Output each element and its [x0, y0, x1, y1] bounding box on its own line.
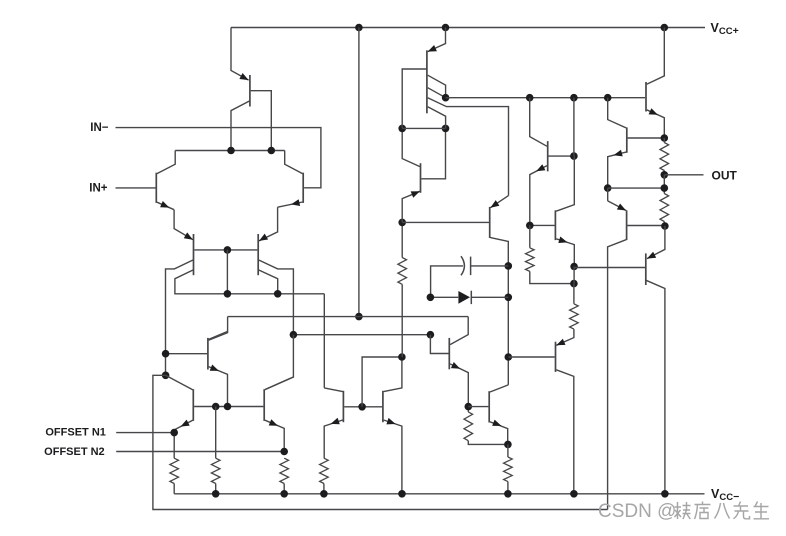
label IN+: [89, 183, 108, 195]
transistor Q2: [278, 151, 304, 208]
wire VCC+ rail (top): [231, 27, 705, 29]
svg-text:IN−: IN−: [90, 122, 109, 134]
wire input-pair collector line: [175, 150, 285, 152]
transistor Q3: [166, 232, 325, 375]
transistor Q15: [608, 98, 665, 188]
node Q4 second collector: [274, 290, 282, 298]
wire VCC+ drop to second-stage collectors: [358, 28, 360, 317]
resistor R9 (Q16 emitter): [464, 412, 508, 445]
node Q14 emitter / R9 / Q15 base: [661, 134, 669, 142]
node Q11 collector / R5 bottom: [398, 353, 406, 361]
node R10 bottom / Q21 base / Q20 emitter: [661, 222, 669, 230]
resistor R2: [280, 458, 289, 494]
node rail Q20 collector: [661, 490, 669, 498]
node Q12 collector/base tie left: [398, 125, 406, 133]
transistor Q13 (multi-collector): [402, 28, 508, 196]
wire OUT link: [608, 187, 665, 189]
wire IN- to Q2 base: [116, 128, 321, 188]
wire IN+ to Q1 base: [116, 187, 156, 189]
transistor Q16: [449, 338, 468, 412]
node OUT: [661, 171, 669, 179]
wire base tie to Q11 collector: [362, 357, 402, 407]
node diode anode / Q16 base line: [427, 294, 435, 302]
node Q22 base tap: [505, 353, 513, 361]
node Q13 collectors / bias bus: [442, 94, 450, 102]
transistor Q20: [574, 226, 665, 494]
wire R1 bottom to rail: [173, 484, 175, 494]
transistor Q17: [468, 385, 508, 445]
node Q8 collector / Q1 collector: [227, 147, 235, 155]
resistor R11: [570, 284, 579, 330]
resistor R10 (50 ohm): [660, 194, 669, 227]
wire OUT lead: [664, 174, 703, 176]
node R7 / R11 junction: [570, 280, 578, 288]
node Q12 base tie right: [442, 125, 450, 133]
node compensation cap right: [505, 262, 513, 270]
svg-text:OFFSET N1: OFFSET N1: [45, 426, 106, 438]
label VCC+: [711, 21, 739, 37]
node Q5/Q6 base / Q7 emitter: [224, 403, 232, 411]
wire Q19 emitter to junction: [573, 267, 575, 284]
svg-text:IN+: IN+: [89, 183, 108, 195]
wire OFFSET N2 lead: [116, 451, 284, 453]
transistor Q12: [402, 128, 445, 222]
transistor Q8: [231, 28, 271, 151]
node rail Q22 collector: [570, 490, 578, 498]
wire Q1 emitter to Q3 emitter: [174, 210, 193, 240]
node VCC+ extension junction: [355, 313, 363, 321]
transistor Q5: [166, 375, 264, 458]
resistor R6 (25 ohm): [660, 138, 669, 175]
wire OUT to R10: [663, 175, 665, 194]
node rail R3: [212, 490, 220, 498]
node OFFSET N1 / Q5 emitter / R1: [170, 429, 178, 437]
transistor Q7: [166, 331, 228, 406]
node bases / mirror net: [224, 290, 232, 298]
node Q16 emitter / Q17 base: [465, 403, 473, 411]
label OFFSET N1: [45, 426, 106, 438]
node VCC+ / mid drop tap: [355, 24, 363, 32]
wire VCC- rail: [174, 493, 704, 495]
capacitor C1 (30 pF): [431, 256, 509, 297]
node rail Q11 emitter: [398, 490, 406, 498]
node diode cathode: [505, 294, 513, 302]
node VCC+ / Q13 emitter tap: [442, 24, 450, 32]
node Q12 emitter / Q23 base: [398, 219, 406, 227]
resistor R1: [170, 458, 179, 483]
transistor Q1: [156, 151, 175, 210]
transistor Q4: [258, 234, 293, 335]
transistor Q23: [402, 196, 508, 385]
wire down to Q6 collector: [265, 335, 294, 390]
label VCC-: [711, 487, 739, 503]
transistor Q22: [508, 329, 574, 494]
wire bias bus: [446, 97, 645, 99]
wire Q4/Q6 collectors to Q16 base: [293, 334, 430, 336]
node Q18 emitter / Q19 base / R7: [526, 222, 534, 230]
resistor R7: [526, 225, 574, 283]
transistor Q10: [324, 388, 382, 458]
label OFFSET N2: [44, 446, 105, 458]
node bus / Q19 collector line: [570, 94, 578, 102]
wire OFFSET N1 lead: [116, 432, 174, 434]
wire R5 top to Q12 node: [401, 222, 403, 257]
transistor Q18: [530, 98, 574, 226]
node Q5 collector / protection loop: [162, 372, 170, 380]
wire Q2 emitter to Q4 emitter: [259, 207, 278, 241]
label IN-: [90, 122, 109, 134]
node OUT column / link: [661, 184, 669, 192]
node Q15 emitter / OUT link: [604, 184, 612, 192]
wire VCC+ extension to Q7/Q16 collectors: [209, 317, 469, 345]
resistor R8: [504, 444, 513, 493]
transistor Q14: [646, 28, 664, 139]
transistor Q6: [264, 377, 293, 452]
transistor Q11: [383, 357, 402, 494]
wire Q12 tie line: [402, 127, 445, 129]
svg-text:OUT: OUT: [712, 169, 738, 183]
node Q10/Q11 base tie: [358, 403, 366, 411]
node Q16 base / compensation: [427, 331, 435, 339]
node Q8 base / Q2 collector: [268, 147, 276, 155]
node rail R4: [320, 490, 328, 498]
node Q18 base / Q19 collector: [570, 152, 578, 160]
resistor R3: [211, 458, 220, 494]
diode D1: [430, 291, 508, 304]
svg-text:OFFSET N2: OFFSET N2: [44, 446, 105, 458]
resistor R5: [398, 258, 407, 358]
watermark text: [598, 501, 769, 522]
transistor Q21: [608, 201, 665, 510]
wire node to Q16 base: [430, 335, 448, 354]
node Q3/Q4 base tie: [224, 246, 232, 254]
label OUT: [712, 169, 738, 183]
node Q4 collector / Q6 collector: [290, 331, 298, 339]
wire Q15/Q21 emitter link: [607, 188, 609, 201]
wire bus to Q18 base node: [573, 98, 575, 156]
node OFFSET N2 / Q6 emitter / R2: [280, 448, 288, 456]
node Q17 emitter / R8: [504, 441, 512, 449]
resistor R4: [320, 458, 329, 494]
wire protection loop: [153, 375, 608, 509]
wire base net to Q10 collector: [323, 294, 325, 388]
wire R3 feed: [215, 407, 217, 459]
node VCC+ / output tap: [661, 24, 669, 32]
node Q5/Q6 base / R3: [212, 403, 220, 411]
wire base tie down: [226, 250, 228, 294]
node rail R2: [280, 490, 288, 498]
node Q19 emitter / Q20 base line: [570, 263, 578, 271]
node bus / Q18 collector: [526, 94, 534, 102]
svg-text:CSDN @: CSDN @: [598, 501, 676, 522]
node rail R8: [504, 490, 512, 498]
transistor Q19: [530, 156, 575, 266]
node Q3 collector / Q7 base: [162, 350, 170, 358]
node bus / Q15 collector: [604, 94, 612, 102]
